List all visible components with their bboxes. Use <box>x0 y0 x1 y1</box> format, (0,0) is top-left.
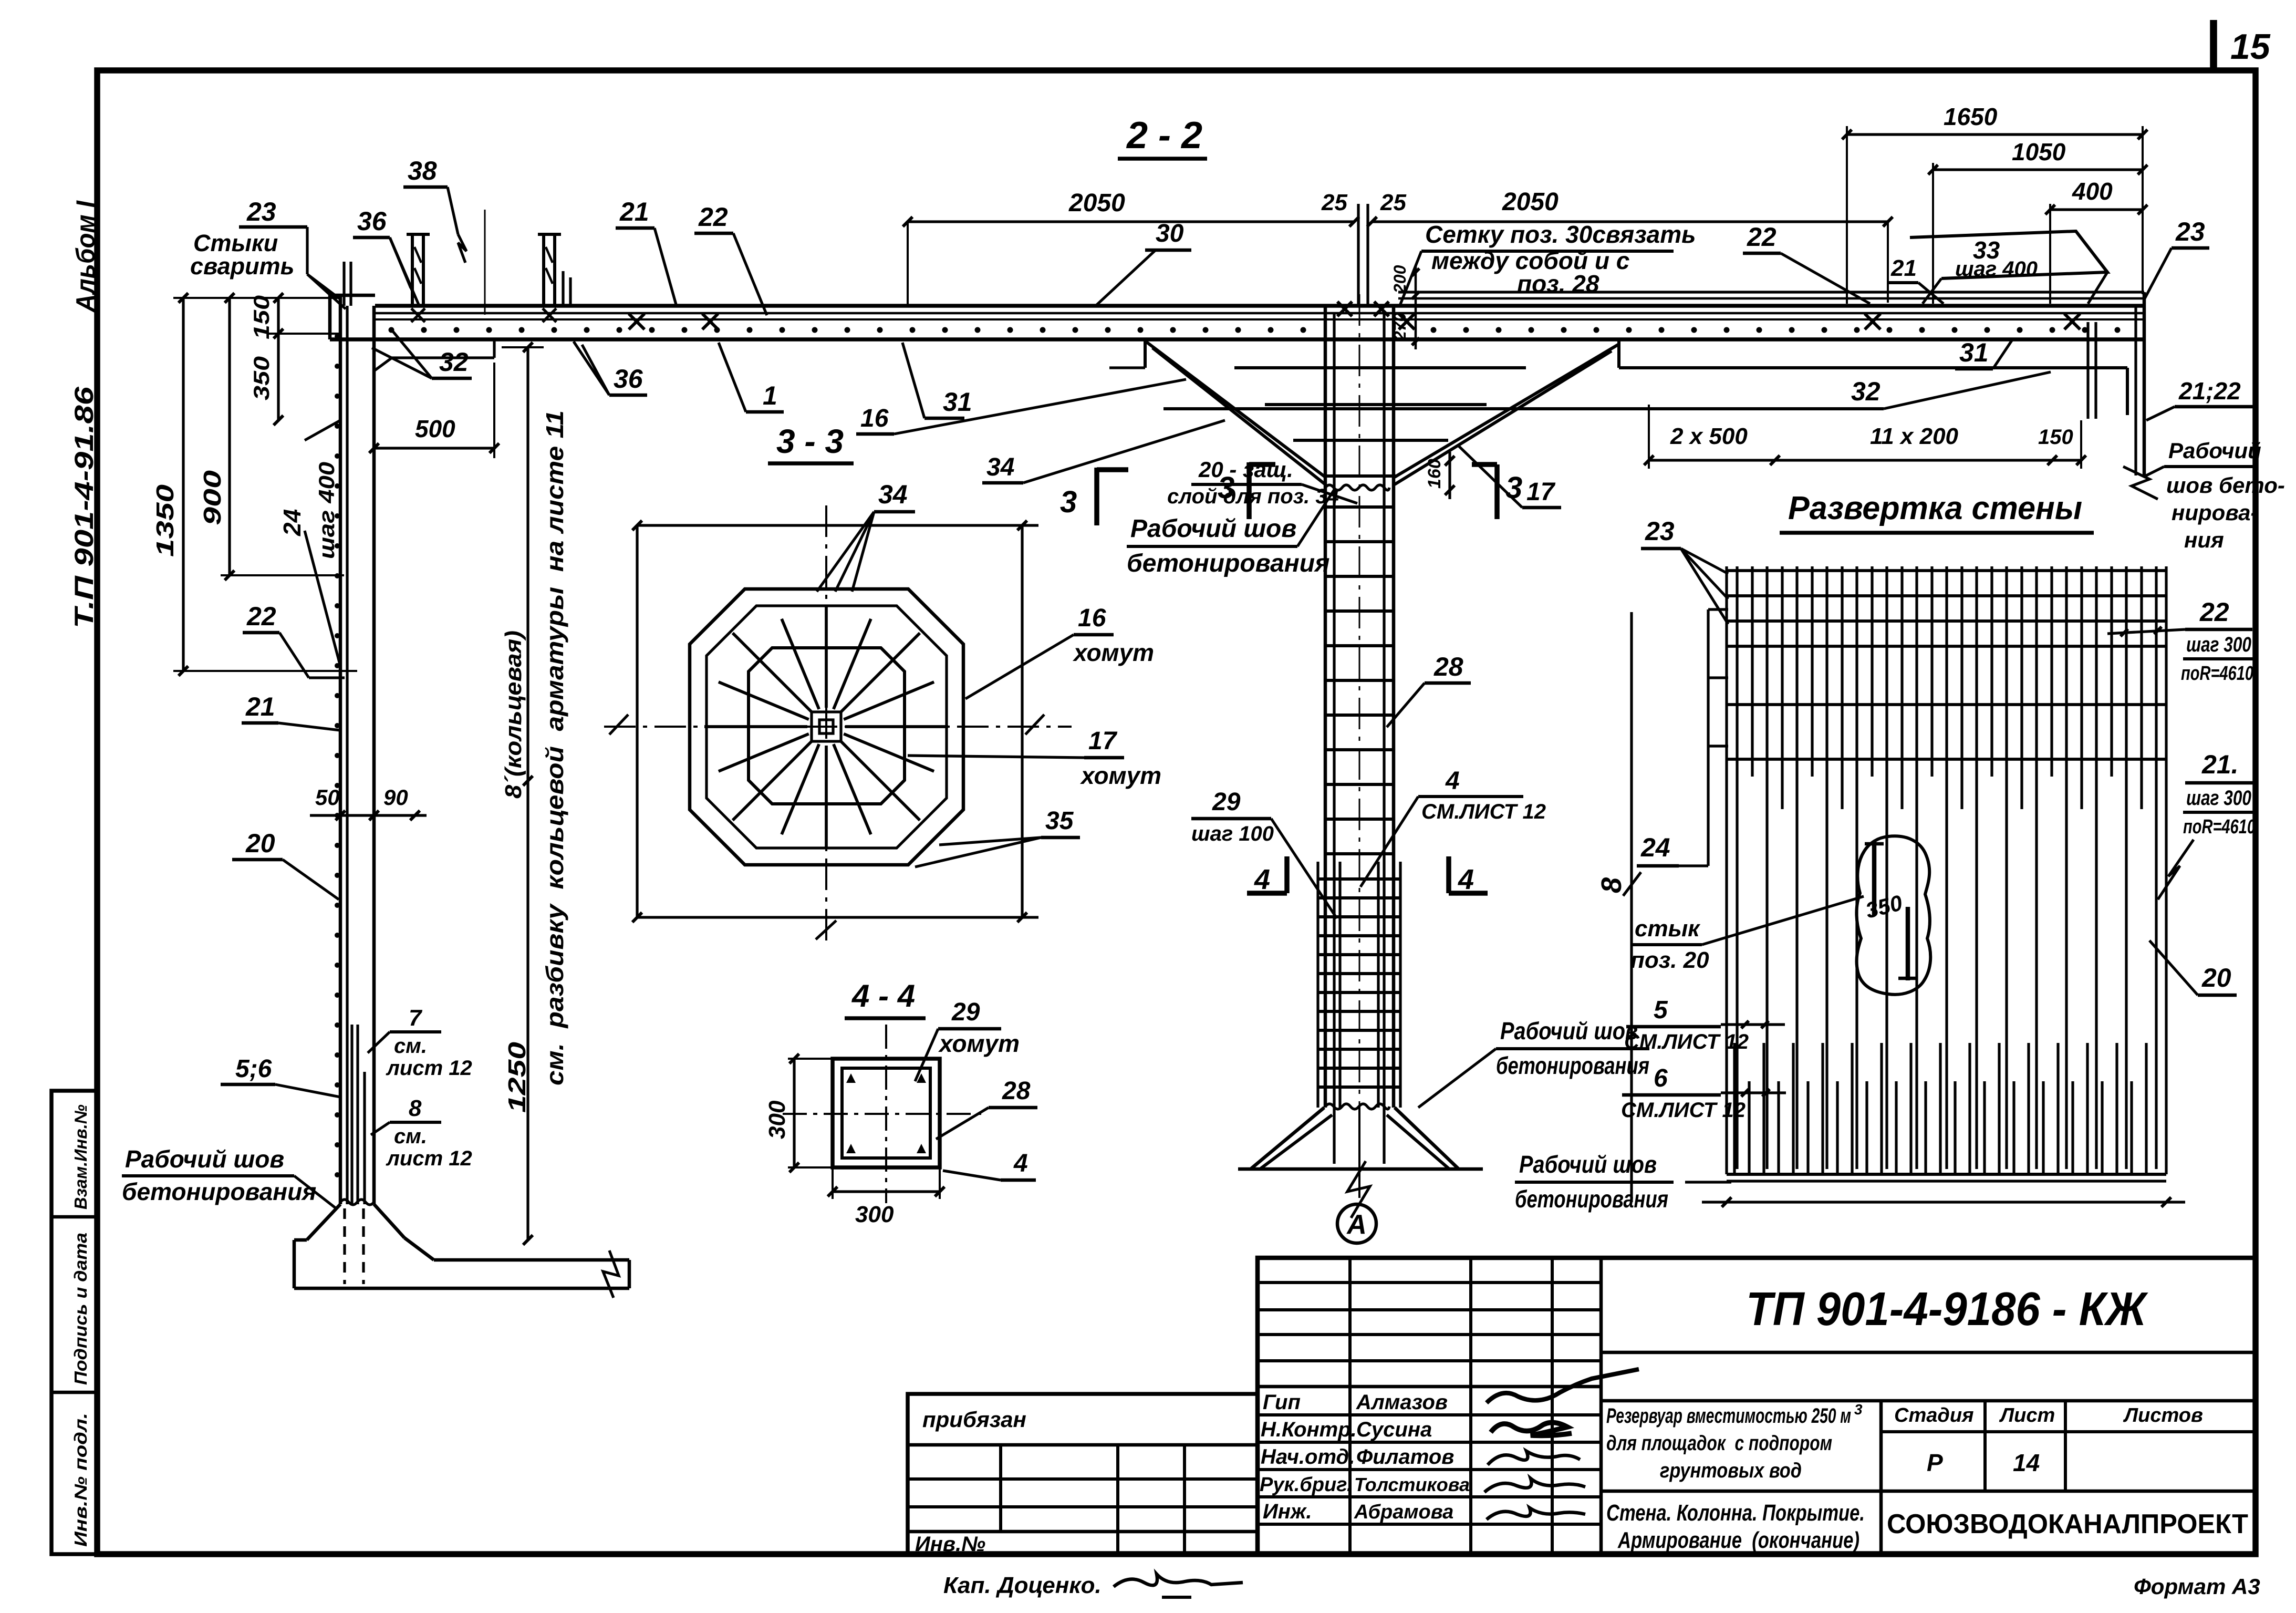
svg-text:28: 28 <box>1002 1077 1031 1105</box>
svg-text:Сетку поз. 30связать: Сетку поз. 30связать <box>1425 221 1696 248</box>
svg-text:22: 22 <box>246 602 276 631</box>
svg-text:стык: стык <box>1635 916 1701 942</box>
svg-text:поR=4610: поR=4610 <box>2181 663 2253 685</box>
svg-text:Р: Р <box>1927 1449 1943 1476</box>
svg-text:29: 29 <box>951 998 980 1026</box>
svg-text:шаг 400: шаг 400 <box>1955 257 2038 281</box>
4-4 dim 300 vertical <box>793 1059 795 1167</box>
svg-text:6: 6 <box>1654 1064 1668 1092</box>
svg-text:Резервуар вместимостью 250 м: Резервуар вместимостью 250 м <box>1606 1404 1851 1428</box>
svg-text:нирова-: нирова- <box>2172 500 2258 525</box>
svg-text:шов бето-: шов бето- <box>2166 473 2285 498</box>
svg-text:21;22: 21;22 <box>2178 377 2241 405</box>
svg-text:Кап. Доценко.: Кап. Доценко. <box>943 1573 1102 1598</box>
svg-text:4 - 4: 4 - 4 <box>851 978 915 1014</box>
development top horizontal bars 23 <box>1727 569 2166 572</box>
left wall outer face <box>339 294 342 1204</box>
svg-text:3: 3 <box>1854 1401 1863 1418</box>
svg-text:см. разбивку кольцевой арма: см. разбивку кольцевой арматуры на листе… <box>541 410 568 1085</box>
right wall stub bars <box>2086 322 2089 419</box>
svg-text:16: 16 <box>1078 604 1106 632</box>
column stirrup rungs upper <box>1325 505 1394 509</box>
3-3 middle ring stirrup 17 <box>749 648 905 804</box>
4-4 square outer <box>833 1059 940 1167</box>
foundation center line and break <box>1358 1107 1360 1198</box>
svg-text:поз. 28: поз. 28 <box>1517 270 1599 297</box>
column stirrup rungs lower dense <box>1318 877 1400 881</box>
svg-text:22: 22 <box>2199 597 2229 627</box>
svg-text:грунтовых вод: грунтовых вод <box>1660 1459 1802 1482</box>
svg-text:прибязан: прибязан <box>922 1407 1026 1432</box>
svg-text:31: 31 <box>943 387 972 417</box>
capital stirrup rungs <box>1234 366 1526 369</box>
left wall footing <box>307 1204 340 1240</box>
svg-text:Нач.отд.: Нач.отд. <box>1261 1445 1355 1469</box>
svg-text:5: 5 <box>1654 996 1668 1024</box>
left wall inner bars 5;6 <box>350 1025 353 1204</box>
svg-text:400: 400 <box>2072 178 2113 205</box>
svg-text:23: 23 <box>1645 516 1675 546</box>
slab rebar dots <box>389 327 394 333</box>
svg-text:20 - защ.: 20 - защ. <box>1198 457 1293 482</box>
svg-text:1350: 1350 <box>151 484 179 557</box>
crosses at column head <box>1337 302 1352 316</box>
svg-text:Рук.бриг.: Рук.бриг. <box>1260 1474 1353 1496</box>
title block main table frame <box>1258 1258 2256 1554</box>
svg-text:300: 300 <box>855 1202 894 1227</box>
svg-text:Н.Контр.: Н.Контр. <box>1261 1418 1357 1441</box>
dim 500 horizontal <box>374 447 494 449</box>
capital left slope <box>1145 341 1325 477</box>
svg-text:8: 8 <box>1596 877 1627 893</box>
svg-text:Инж.: Инж. <box>1263 1500 1312 1523</box>
svg-text:3 - 3: 3 - 3 <box>776 422 844 460</box>
svg-text:2050: 2050 <box>1502 188 1559 216</box>
right slab drop bottom line <box>1619 366 2127 369</box>
svg-text:8´(кольцевая): 8´(кольцевая) <box>501 630 526 799</box>
dim line 2050 left <box>908 220 1354 223</box>
svg-text:Гип: Гип <box>1263 1391 1301 1414</box>
svg-text:23: 23 <box>2175 217 2205 246</box>
svg-text:ТП 901-4-9186 - КЖ: ТП 901-4-9186 - КЖ <box>1746 1283 2148 1336</box>
svg-text:Абрамова: Абрамова <box>1354 1501 1453 1523</box>
title block signature columns <box>1348 1258 1352 1554</box>
svg-text:бетонирования: бетонирования <box>1515 1185 1668 1213</box>
svg-text:21: 21 <box>619 197 649 226</box>
footing break zigzag <box>603 1250 619 1298</box>
development horizontal bar 22 <box>1727 703 2166 706</box>
svg-text:см.: см. <box>394 1125 427 1148</box>
sheet number 15 <box>2210 20 2217 69</box>
svg-text:Толстикова: Толстикова <box>1354 1474 1470 1495</box>
svg-text:хомут: хомут <box>938 1030 1020 1057</box>
dim 160 rotated <box>1448 452 1451 499</box>
svg-text:32: 32 <box>439 347 469 377</box>
svg-text:11 х 200: 11 х 200 <box>1870 423 1959 449</box>
svg-text:шаг 300: шаг 300 <box>2186 787 2251 810</box>
svg-text:Рабочий: Рабочий <box>2168 438 2261 463</box>
svg-text:ния: ния <box>2184 528 2224 552</box>
svg-text:20: 20 <box>245 829 275 858</box>
svg-text:16: 16 <box>860 405 889 432</box>
3-3 inner hub square <box>812 712 841 741</box>
svg-text:8: 8 <box>409 1095 422 1121</box>
development bottom dim line <box>1702 1201 2185 1203</box>
dim 1050 <box>1933 168 2143 171</box>
svg-text:35: 35 <box>1045 807 1074 835</box>
svg-text:1250: 1250 <box>503 1041 531 1113</box>
column working joint top wavy <box>1325 485 1389 490</box>
dim line 2050 right <box>1372 220 1888 223</box>
svg-text:90: 90 <box>383 785 408 810</box>
column rebar lines <box>1333 313 1335 1164</box>
svg-text:15: 15 <box>2230 27 2271 67</box>
svg-text:24: 24 <box>1640 833 1670 862</box>
svg-text:4: 4 <box>1445 767 1460 795</box>
svg-text:4: 4 <box>1254 864 1270 895</box>
label 33 shag 400 box <box>1910 231 2107 278</box>
svg-text:СМ.ЛИСТ 12: СМ.ЛИСТ 12 <box>1624 1030 1749 1053</box>
svg-text:Альбом I: Альбом I <box>71 200 100 313</box>
3-3 octagon outer ring <box>690 589 963 865</box>
development left edge bar <box>1725 566 1728 1174</box>
column left face <box>1324 306 1327 1108</box>
margin stamp boxes <box>51 1091 97 1554</box>
svg-text:поз. 20: поз. 20 <box>1630 947 1709 973</box>
svg-text:Филатов: Филатов <box>1356 1445 1454 1469</box>
roof opening upstand <box>411 234 414 306</box>
3-3 octagon second ring <box>707 606 947 848</box>
svg-text:Т.П 901-4-91.86: Т.П 901-4-91.86 <box>69 386 99 628</box>
svg-text:36: 36 <box>614 364 643 394</box>
svg-text:36: 36 <box>357 206 387 236</box>
svg-text:21.: 21. <box>2201 750 2239 779</box>
dim 2x500 11x200 150 <box>1649 459 2081 461</box>
left dim 150 350 <box>277 298 279 420</box>
svg-text:Армирование (окончание): Армирование (окончание) <box>1617 1527 1859 1553</box>
roof slab bottom line <box>330 337 2144 342</box>
svg-text:2 х 500: 2 х 500 <box>1670 423 1748 449</box>
signatures squiggles <box>1487 1369 1639 1403</box>
vertical dim ring rebar <box>526 347 529 1240</box>
mesh 30 upper lines right of column <box>1398 291 2144 293</box>
splice oval detail <box>1856 836 1930 995</box>
left dim 900 <box>228 298 231 575</box>
svg-text:Инв.№: Инв.№ <box>915 1533 985 1556</box>
svg-text:Листов: Листов <box>2123 1404 2203 1426</box>
svg-text:сварить: сварить <box>190 253 294 280</box>
column splice extra bars <box>1316 862 1319 1108</box>
svg-text:А: А <box>1346 1209 1367 1240</box>
4-4 square inner <box>842 1068 930 1158</box>
right wall break zigzag <box>2123 467 2158 499</box>
left wall top cap <box>330 294 375 297</box>
development right edge bar <box>2165 566 2167 1174</box>
title block small rows upper <box>1258 1281 1601 1284</box>
svg-text:бетонирования: бетонирования <box>1127 550 1329 577</box>
column center line <box>1359 294 1360 1107</box>
foundation ground line <box>1238 1167 1483 1171</box>
title block wide low table <box>908 1394 1258 1554</box>
svg-text:2 - 2: 2 - 2 <box>1126 115 1202 157</box>
svg-text:50: 50 <box>315 785 340 810</box>
node mark A circle <box>1337 1204 1376 1243</box>
svg-text:5;6: 5;6 <box>235 1055 272 1083</box>
svg-text:21: 21 <box>245 692 275 721</box>
svg-text:29: 29 <box>1212 788 1241 816</box>
svg-text:32: 32 <box>1851 377 1881 406</box>
roof slab top line <box>375 304 2144 308</box>
3-3 dimension box <box>637 524 1038 526</box>
svg-text:Развертка стены: Развертка стены <box>1788 490 2082 526</box>
column foundation haunches <box>1251 1108 1324 1169</box>
development horizontal bar 21 <box>1727 758 2166 761</box>
svg-text:7: 7 <box>409 1005 423 1031</box>
svg-text:34: 34 <box>878 480 908 509</box>
svg-text:350: 350 <box>249 356 274 400</box>
svg-text:СОЮЗВОДОКАНАЛПРОЕКТ: СОЮЗВОДОКАНАЛПРОЕКТ <box>1887 1509 2248 1539</box>
svg-text:шаг 300: шаг 300 <box>2186 633 2251 656</box>
svg-text:25: 25 <box>1380 190 1406 215</box>
svg-text:21: 21 <box>1890 255 1917 281</box>
title block big code box <box>1601 1351 2256 1354</box>
svg-text:4: 4 <box>1458 864 1474 895</box>
dim 400 <box>2050 208 2143 211</box>
right wall face <box>2143 292 2146 475</box>
dim extension lines left wall <box>173 297 340 299</box>
svg-text:Стадия: Стадия <box>1894 1404 1973 1426</box>
svg-text:Сусина: Сусина <box>1356 1418 1432 1441</box>
left wall working joint wavy <box>340 1200 374 1205</box>
svg-text:300: 300 <box>764 1100 790 1139</box>
left wall inner bars 7 8 <box>363 1072 366 1204</box>
svg-text:Рабочий шов: Рабочий шов <box>1519 1151 1657 1178</box>
svg-text:лист 12: лист 12 <box>386 1147 472 1170</box>
left wall top starter bars (welded joints) <box>342 262 345 306</box>
svg-text:17: 17 <box>1526 478 1556 506</box>
slab rebar crosses <box>629 314 645 329</box>
svg-text:160: 160 <box>1425 459 1445 489</box>
footing dashed dowels <box>343 1208 346 1284</box>
svg-text:бетонирования: бетонирования <box>1496 1052 1649 1079</box>
column right face <box>1392 306 1396 1108</box>
svg-text:Рабочий шов: Рабочий шов <box>1130 515 1296 543</box>
svg-text:Рабочий шов: Рабочий шов <box>1500 1017 1638 1045</box>
svg-text:Стена. Колонна. Покрытие.: Стена. Колонна. Покрытие. <box>1606 1500 1865 1526</box>
development long vertical bars 20 <box>1736 566 1738 1169</box>
roof slab third line <box>375 318 2144 320</box>
development short bottom bars 5 6 <box>1733 1043 1736 1173</box>
svg-text:Алмазов: Алмазов <box>1356 1391 1448 1414</box>
capital right slope <box>1395 344 1619 477</box>
section cut mark 4 right <box>1446 856 1451 893</box>
svg-text:поR=4610: поR=4610 <box>2183 816 2256 838</box>
svg-text:Лист: Лист <box>1999 1404 2055 1426</box>
svg-text:1050: 1050 <box>2012 138 2066 166</box>
svg-text:Подпись и дата: Подпись и дата <box>71 1233 90 1385</box>
svg-text:34: 34 <box>986 453 1014 481</box>
svg-text:шаг 400: шаг 400 <box>314 462 339 559</box>
left wall inner face <box>372 306 376 1204</box>
svg-text:шаг 100: шаг 100 <box>1191 822 1274 845</box>
section cut mark 3 right <box>1494 464 1500 519</box>
dim 200 270 rotated at capital <box>1415 265 1417 349</box>
development left height dim 8 <box>1630 612 1633 1202</box>
svg-text:Рабочий шов: Рабочий шов <box>125 1145 284 1173</box>
svg-text:хомут: хомут <box>1072 639 1154 666</box>
svg-text:4: 4 <box>1013 1150 1028 1177</box>
4-4 dim 300 horizontal <box>833 1190 940 1193</box>
svg-text:28: 28 <box>1433 652 1463 681</box>
svg-text:СМ.ЛИСТ 12: СМ.ЛИСТ 12 <box>1421 800 1546 823</box>
svg-text:3: 3 <box>1505 471 1522 505</box>
svg-text:23: 23 <box>246 197 276 226</box>
svg-text:38: 38 <box>408 156 437 185</box>
left wall rebar line with dots <box>346 306 348 1204</box>
svg-text:1650: 1650 <box>1944 103 1998 130</box>
svg-text:хомут: хомут <box>1079 762 1161 789</box>
svg-text:500: 500 <box>415 415 455 442</box>
development short top bars <box>1751 566 1753 777</box>
4-4 corner bar dots <box>846 1073 856 1083</box>
svg-text:СМ.ЛИСТ 12: СМ.ЛИСТ 12 <box>1621 1099 1746 1122</box>
title block lower area lines <box>1601 1399 2256 1403</box>
title block name rows <box>1258 1413 1601 1416</box>
development bottom edge lines <box>1727 1173 2166 1176</box>
svg-text:3: 3 <box>1060 485 1077 519</box>
svg-text:1: 1 <box>763 381 777 410</box>
svg-text:14: 14 <box>2013 1449 2040 1476</box>
svg-text:для площадок с подпором: для площадок с подпором <box>1606 1432 1832 1455</box>
svg-text:900: 900 <box>199 470 226 525</box>
3-3 radial bars 34 <box>845 725 948 728</box>
svg-text:25: 25 <box>1321 190 1347 215</box>
svg-text:см.: см. <box>394 1035 427 1058</box>
svg-text:31: 31 <box>1959 338 1989 367</box>
svg-text:бетонирования: бетонирования <box>122 1178 316 1205</box>
svg-text:30: 30 <box>1156 220 1184 247</box>
svg-text:2050: 2050 <box>1068 189 1125 217</box>
svg-text:20: 20 <box>2201 963 2231 992</box>
svg-text:Взам.Инв.№: Взам.Инв.№ <box>71 1104 90 1209</box>
4-4 center lines <box>783 1113 988 1115</box>
svg-text:150: 150 <box>2038 426 2073 449</box>
svg-text:Формат А3: Формат А3 <box>2134 1574 2260 1599</box>
svg-text:24: 24 <box>278 509 306 536</box>
opening axis line <box>484 210 486 315</box>
svg-text:Инв.№ подл.: Инв.№ подл. <box>71 1413 90 1547</box>
left wall haunch below slab <box>374 358 392 371</box>
svg-text:22: 22 <box>1747 222 1776 252</box>
3-3 center lines with breaks <box>604 726 1072 728</box>
column working joint bottom wavy <box>1325 1104 1389 1109</box>
dim 1650 <box>1847 133 2143 136</box>
svg-text:22: 22 <box>698 202 728 232</box>
left dim chain 1350 <box>182 298 184 671</box>
svg-text:17: 17 <box>1088 727 1118 755</box>
column starter bars through slab <box>1357 204 1359 306</box>
roof slab second line <box>375 312 2144 315</box>
svg-text:лист 12: лист 12 <box>386 1057 472 1080</box>
